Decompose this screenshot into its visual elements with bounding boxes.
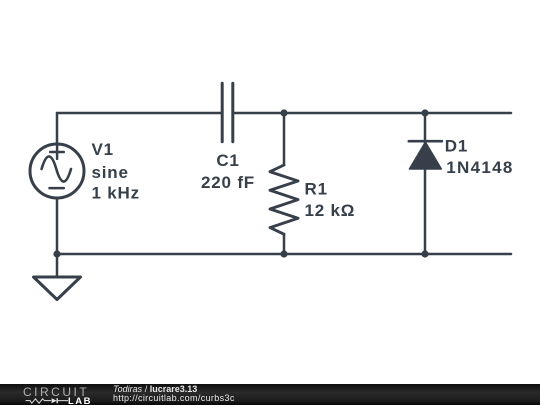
svg-text:1N4148: 1N4148 bbox=[446, 158, 513, 177]
svg-text:D1: D1 bbox=[445, 137, 468, 156]
svg-text:R1: R1 bbox=[305, 180, 328, 199]
svg-text:V1: V1 bbox=[92, 140, 114, 159]
svg-text:sine: sine bbox=[92, 163, 129, 182]
svg-text:C1: C1 bbox=[216, 151, 239, 170]
svg-text:1 kHz: 1 kHz bbox=[92, 184, 140, 203]
svg-text:220 fF: 220 fF bbox=[201, 173, 255, 192]
svg-text:12 kΩ: 12 kΩ bbox=[305, 201, 356, 220]
